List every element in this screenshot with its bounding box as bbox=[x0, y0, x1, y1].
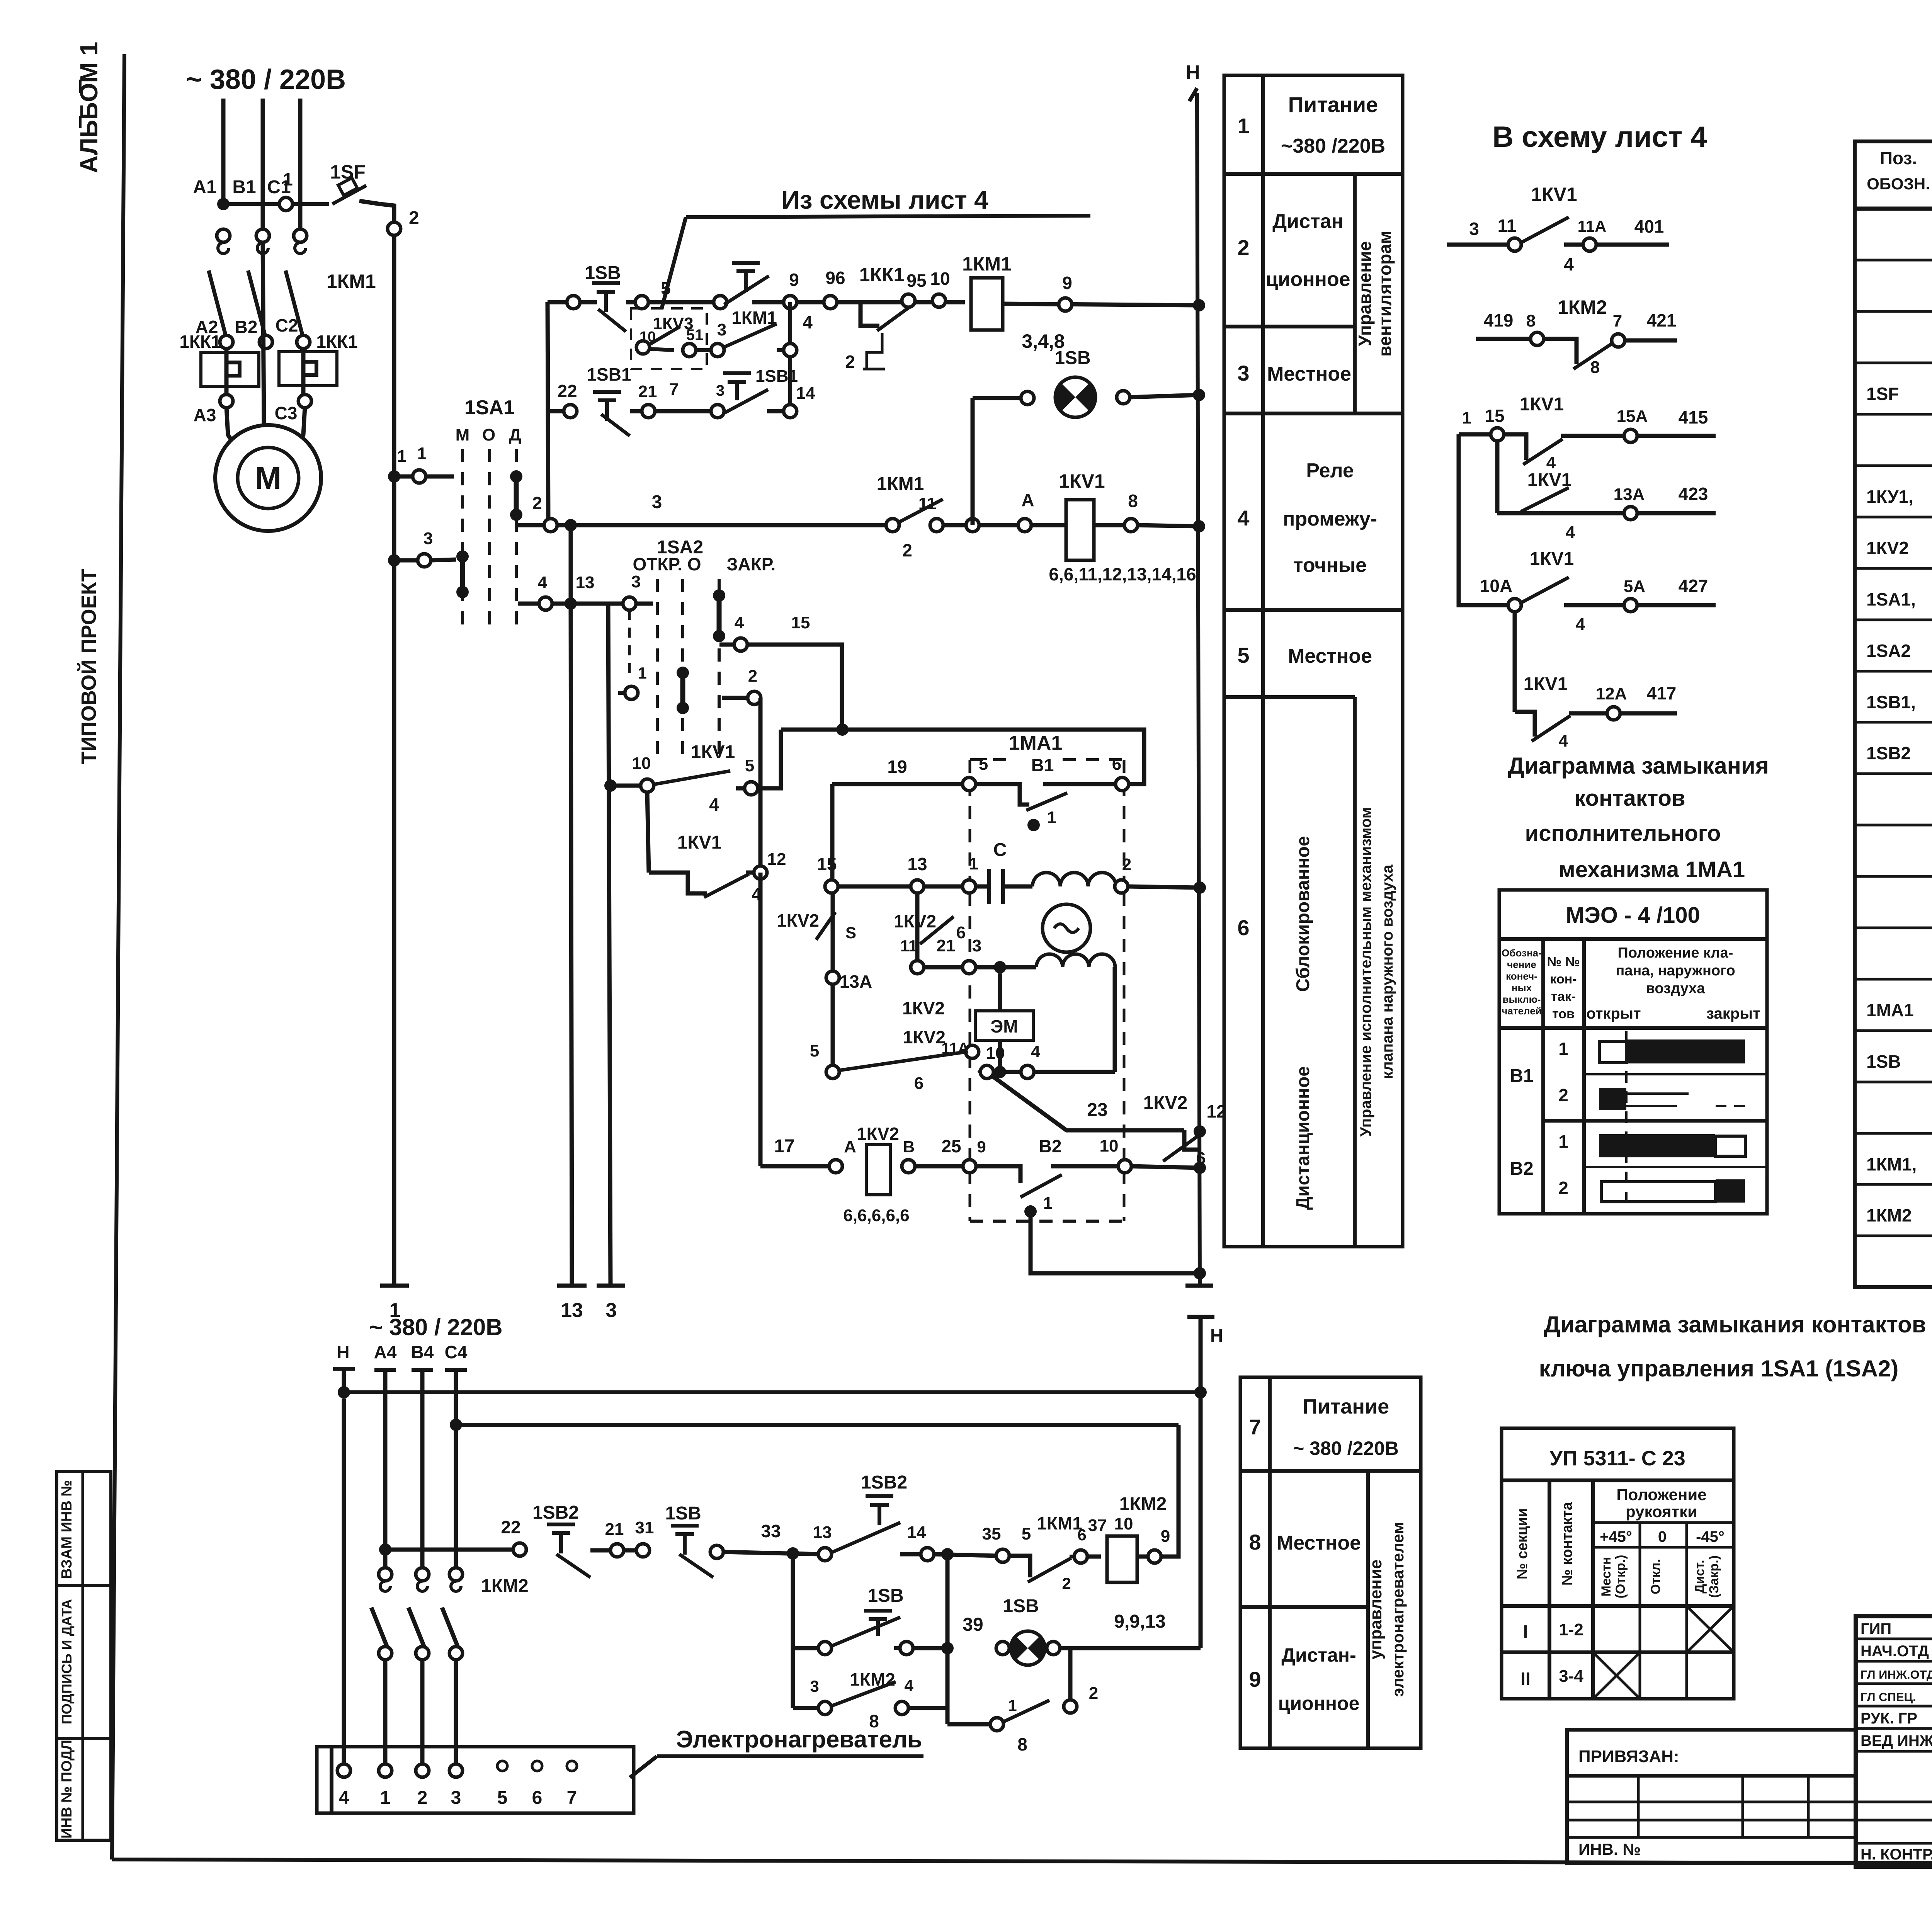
svg-text:С2: С2 bbox=[276, 315, 298, 335]
svg-text:№ №: № № bbox=[1547, 954, 1580, 969]
node bus row 3018 bbox=[1194, 1162, 1206, 1174]
wire lamp return up bbox=[1199, 1392, 1203, 1648]
svg-text:7: 7 bbox=[669, 380, 679, 399]
svg-text:Управление исполнительным ме: Управление исполнительным механизмом bbox=[1357, 807, 1374, 1137]
svg-text:21: 21 bbox=[605, 1520, 624, 1539]
svg-text:10: 10 bbox=[632, 754, 651, 773]
svg-text:9: 9 bbox=[789, 270, 799, 290]
svg-text:Д: Д bbox=[509, 425, 521, 444]
svg-text:11: 11 bbox=[1498, 216, 1517, 236]
svg-text:исполнительного: исполнительного bbox=[1525, 821, 1721, 846]
svg-text:1КV2: 1КV2 bbox=[777, 910, 819, 931]
svg-text:51: 51 bbox=[686, 327, 704, 344]
svg-text:13: 13 bbox=[576, 573, 595, 592]
svg-text:10: 10 bbox=[986, 1044, 1005, 1063]
svg-text:тов: тов bbox=[1552, 1007, 1575, 1021]
MEO bar row1 bbox=[1599, 1041, 1626, 1063]
svg-text:1SВ: 1SВ bbox=[665, 1503, 701, 1524]
svg-text:1КМ1: 1КМ1 bbox=[877, 474, 924, 494]
contact 1KM2 bottom bbox=[946, 1708, 950, 1724]
svg-text:15: 15 bbox=[1485, 406, 1504, 426]
generator symbol in 1MA1 bbox=[1043, 904, 1090, 952]
svg-text:1SВ: 1SВ bbox=[1003, 1596, 1039, 1616]
svg-text:Питание: Питание bbox=[1288, 92, 1378, 117]
svg-text:ных: ных bbox=[1512, 982, 1532, 994]
terminal N mid bbox=[1187, 1315, 1214, 1319]
svg-text:1КV2: 1КV2 bbox=[894, 911, 936, 931]
sidebar stamp box Инв № подл bbox=[57, 1739, 111, 1840]
node A row 3018 bbox=[829, 1160, 842, 1173]
svg-text:4: 4 bbox=[1031, 1042, 1041, 1061]
svg-text:1КМ1: 1КМ1 bbox=[1037, 1513, 1082, 1533]
svg-text:ГЛ ИНЖ.ОТД: ГЛ ИНЖ.ОТД bbox=[1861, 1668, 1932, 1681]
svg-text:МЭО - 4 /100: МЭО - 4 /100 bbox=[1566, 903, 1700, 928]
svg-text:95: 95 bbox=[906, 270, 926, 291]
node B2 bbox=[259, 335, 272, 349]
svg-text:3: 3 bbox=[717, 320, 726, 339]
svg-text:А4: А4 bbox=[374, 1342, 397, 1362]
svg-text:АЛЬБОМ 1: АЛЬБОМ 1 bbox=[75, 42, 103, 173]
svg-text:4: 4 bbox=[904, 1676, 913, 1694]
svg-text:5А: 5А bbox=[1624, 577, 1645, 596]
svg-text:8: 8 bbox=[1017, 1734, 1027, 1754]
svg-text:1SВ1: 1SВ1 bbox=[755, 367, 798, 386]
svg-text:закрыт: закрыт bbox=[1706, 1005, 1760, 1022]
svg-text:2: 2 bbox=[409, 208, 419, 228]
node bus row2 bbox=[1193, 299, 1205, 311]
svg-text:6: 6 bbox=[1112, 755, 1121, 774]
1SA1 contact M closed bbox=[456, 550, 469, 563]
svg-text:1SВ2: 1SВ2 bbox=[1866, 743, 1911, 763]
node 11 row4 bbox=[930, 519, 943, 532]
svg-text:пана, наружного: пана, наружного bbox=[1616, 963, 1735, 979]
svg-text:№ секции: № секции bbox=[1514, 1508, 1531, 1579]
svg-text:Диаграмма замыкания контакт: Диаграмма замыкания контактов bbox=[1544, 1312, 1926, 1337]
bus N horizontal bbox=[344, 1390, 1201, 1394]
svg-text:1КМ2: 1КМ2 bbox=[481, 1576, 529, 1596]
svg-text:9: 9 bbox=[1062, 273, 1072, 293]
svg-text:6: 6 bbox=[1237, 915, 1249, 940]
wire phase B1 bbox=[261, 99, 265, 236]
svg-text:Управление: Управление bbox=[1355, 241, 1375, 346]
title block main frame bbox=[1856, 1616, 1932, 1866]
svg-text:Откл.: Откл. bbox=[1648, 1559, 1663, 1594]
node 9 row 3018 bbox=[963, 1160, 976, 1173]
wire 21 to 3 bbox=[655, 409, 711, 413]
svg-text:3: 3 bbox=[423, 529, 433, 548]
svg-text:S: S bbox=[845, 924, 856, 942]
riser 9-4 between rows bbox=[788, 302, 792, 411]
svg-text:11А: 11А bbox=[941, 1040, 969, 1057]
svg-text:15А: 15А bbox=[1617, 407, 1648, 426]
svg-text:В4: В4 bbox=[411, 1342, 434, 1362]
rail from row2 down to row4 bbox=[548, 302, 548, 520]
svg-text:1: 1 bbox=[1462, 408, 1471, 427]
wire row 13-3 bbox=[518, 602, 539, 606]
bus wire to 1SF bbox=[223, 202, 329, 206]
svg-text:4: 4 bbox=[1559, 732, 1568, 750]
svg-text:10: 10 bbox=[930, 269, 950, 289]
svg-text:В2: В2 bbox=[1039, 1136, 1062, 1156]
wire C2-C3 bbox=[301, 348, 306, 395]
svg-text:427: 427 bbox=[1679, 576, 1708, 596]
svg-text:ОБОЗН.: ОБОЗН. bbox=[1867, 175, 1930, 193]
node bus 3295 bbox=[1194, 1267, 1206, 1279]
svg-text:№ контакта: № контакта bbox=[1559, 1502, 1575, 1586]
svg-text:УП 5311- С 23: УП 5311- С 23 bbox=[1549, 1447, 1685, 1470]
svg-text:Дистанционное: Дистанционное bbox=[1293, 1066, 1313, 1210]
svg-text:22: 22 bbox=[501, 1517, 520, 1537]
svg-text:А3: А3 bbox=[194, 405, 216, 425]
control line from A4 bbox=[379, 1543, 391, 1556]
svg-text:1КМ2: 1КМ2 bbox=[1866, 1205, 1912, 1225]
svg-text:8: 8 bbox=[1128, 491, 1138, 511]
svg-text:13: 13 bbox=[813, 1523, 832, 1542]
wire N down to terminal 4 bbox=[342, 1398, 346, 1764]
riser 15 to second contact bbox=[1495, 441, 1500, 513]
node A3 bbox=[220, 395, 233, 408]
svg-text:С4: С4 bbox=[445, 1342, 468, 1362]
svg-text:+45°: +45° bbox=[1600, 1528, 1632, 1545]
svg-text:Поз.: Поз. bbox=[1880, 148, 1917, 168]
svg-text:3: 3 bbox=[716, 382, 724, 399]
svg-text:21: 21 bbox=[937, 936, 956, 955]
svg-text:423: 423 bbox=[1679, 484, 1708, 504]
svg-text:7: 7 bbox=[567, 1788, 577, 1808]
svg-text:ЗАКР.: ЗАКР. bbox=[727, 554, 776, 574]
svg-text:0: 0 bbox=[1658, 1528, 1667, 1545]
electromagnet EM bbox=[975, 1011, 1033, 1040]
terminal 3 bbox=[597, 1284, 625, 1288]
wire 9 up to bus2 bbox=[1161, 1425, 1179, 1557]
wire net 2 from 1SA2 bbox=[722, 696, 747, 700]
svg-text:А: А bbox=[1021, 490, 1034, 510]
wire B2 return to bus bbox=[1031, 1217, 1200, 1273]
svg-text:II: II bbox=[1520, 1669, 1531, 1689]
svg-text:3: 3 bbox=[972, 936, 981, 955]
svg-text:1КМ1: 1КМ1 bbox=[731, 308, 777, 328]
svg-text:ПРИВЯЗАН:: ПРИВЯЗАН: bbox=[1578, 1747, 1679, 1766]
MEO dashed zero line bbox=[1625, 1031, 1628, 1210]
contact circles on phases bbox=[217, 229, 230, 242]
svg-text:так-: так- bbox=[1551, 989, 1576, 1004]
svg-text:Реле: Реле bbox=[1306, 459, 1354, 482]
svg-text:31: 31 bbox=[635, 1518, 654, 1537]
svg-text:9: 9 bbox=[1161, 1527, 1170, 1546]
svg-text:14: 14 bbox=[907, 1523, 926, 1542]
MEO bar row3 bbox=[1599, 1134, 1715, 1157]
svg-text:1КV2: 1КV2 bbox=[903, 1027, 946, 1047]
svg-text:1SВ2: 1SВ2 bbox=[861, 1472, 907, 1493]
svg-text:4: 4 bbox=[1576, 615, 1585, 634]
svg-text:1SF: 1SF bbox=[1866, 384, 1899, 404]
1SA1 contact D closed bbox=[510, 470, 522, 483]
wire C3 to motor bbox=[297, 407, 305, 446]
svg-text:управление: управление bbox=[1366, 1560, 1385, 1660]
contact 1KV1 row 2033 bbox=[604, 779, 617, 792]
svg-text:2: 2 bbox=[532, 493, 542, 513]
node bus row4 bbox=[1193, 520, 1205, 532]
svg-text:С3: С3 bbox=[275, 403, 298, 423]
svg-text:22: 22 bbox=[557, 381, 577, 401]
wire net 23 diagonal bbox=[993, 1077, 1184, 1130]
svg-text:~ 380 /220В: ~ 380 /220В bbox=[1293, 1438, 1399, 1459]
svg-text:1SB: 1SB bbox=[585, 263, 621, 283]
svg-text:15: 15 bbox=[817, 854, 837, 874]
svg-text:выклю-: выклю- bbox=[1503, 994, 1541, 1005]
svg-text:1: 1 bbox=[1237, 114, 1249, 138]
node 5 row2 bbox=[635, 296, 648, 309]
rail 13 vertical bbox=[569, 525, 573, 604]
svg-text:6,6,6,6,6: 6,6,6,6,6 bbox=[843, 1206, 909, 1225]
contact 1KV2 row 2774 bbox=[826, 1065, 839, 1079]
node 21 bbox=[642, 405, 655, 418]
svg-text:3: 3 bbox=[631, 572, 641, 591]
svg-text:4: 4 bbox=[803, 312, 813, 332]
svg-text:1КV2: 1КV2 bbox=[1143, 1093, 1188, 1113]
svg-text:1МА1: 1МА1 bbox=[1009, 732, 1063, 754]
svg-text:1КК1: 1КК1 bbox=[179, 332, 221, 352]
svg-text:Дист.: Дист. bbox=[1692, 1560, 1707, 1593]
svg-text:1КК1: 1КК1 bbox=[859, 264, 905, 286]
wire 13 down to 11 bbox=[915, 893, 920, 961]
svg-text:1МА1: 1МА1 bbox=[1866, 1000, 1914, 1020]
wire EM vertical bbox=[998, 973, 1002, 1011]
node 14 bbox=[784, 405, 797, 418]
svg-text:В2: В2 bbox=[1510, 1159, 1533, 1179]
wire net 15-19 corner bbox=[830, 784, 835, 880]
row 3018 wire 17 bbox=[759, 873, 763, 1166]
svg-text:Н: Н bbox=[1185, 61, 1200, 84]
svg-text:14: 14 bbox=[796, 384, 815, 403]
limit switch B1 row bbox=[832, 782, 963, 786]
svg-text:25: 25 bbox=[941, 1136, 961, 1156]
svg-text:1: 1 bbox=[1008, 1696, 1017, 1715]
node 10 row2 bbox=[932, 294, 946, 307]
wire to node 14 bbox=[767, 409, 784, 413]
svg-text:1SА2: 1SА2 bbox=[1866, 641, 1911, 661]
relay contact 1KV3 in dashed box bbox=[631, 308, 707, 369]
svg-text:рукоятки: рукоятки bbox=[1626, 1502, 1697, 1521]
svg-text:1: 1 bbox=[1558, 1131, 1568, 1152]
svg-text:ИНВ № ПОДЛ: ИНВ № ПОДЛ bbox=[59, 1740, 75, 1839]
svg-text:5: 5 bbox=[979, 755, 988, 774]
svg-text:О: О bbox=[482, 425, 495, 444]
svg-text:промежу-: промежу- bbox=[1283, 508, 1377, 530]
node 12 bbox=[754, 866, 767, 879]
wire A2-A3 bbox=[224, 348, 229, 395]
svg-text:воздуха: воздуха bbox=[1646, 980, 1706, 997]
node 35 bbox=[996, 1549, 1009, 1562]
sidebar stamp box Подпись и дата bbox=[57, 1586, 111, 1739]
node 3 row3 bbox=[711, 405, 724, 418]
svg-text:8: 8 bbox=[1590, 358, 1600, 377]
svg-text:механизма 1МА1: механизма 1МА1 bbox=[1559, 857, 1745, 882]
svg-text:Местное: Местное bbox=[1267, 363, 1351, 385]
svg-text:(Закр.): (Закр.) bbox=[1707, 1555, 1721, 1598]
svg-text:1SВ1,: 1SВ1, bbox=[1866, 692, 1916, 712]
svg-text:В1: В1 bbox=[1031, 755, 1054, 775]
svg-text:1КV2: 1КV2 bbox=[857, 1124, 899, 1144]
function table rows 1-6 bbox=[1224, 75, 1403, 1247]
wire row 2293 net 15 bbox=[825, 880, 838, 893]
node 13 heater bbox=[793, 1553, 819, 1554]
wire coil to bus row2 bbox=[1003, 304, 1199, 305]
svg-text:РУК. ГР: РУК. ГР bbox=[1861, 1710, 1917, 1727]
svg-text:чение: чение bbox=[1507, 959, 1536, 970]
svg-text:2: 2 bbox=[902, 540, 912, 560]
svg-text:3: 3 bbox=[1237, 361, 1249, 385]
svg-text:Дистан: Дистан bbox=[1272, 210, 1344, 233]
sidebar stamp box Взам инв № bbox=[57, 1472, 111, 1586]
node 51 bbox=[683, 344, 696, 357]
svg-text:15: 15 bbox=[791, 613, 810, 632]
riser 10A down bbox=[1513, 611, 1517, 712]
svg-text:2: 2 bbox=[1558, 1178, 1568, 1198]
svg-text:М: М bbox=[456, 425, 470, 444]
wire phase C1 bbox=[298, 99, 303, 236]
svg-text:1КV1: 1КV1 bbox=[1527, 470, 1572, 490]
svg-text:6: 6 bbox=[532, 1788, 543, 1808]
svg-text:ПОДПИСЬ И ДАТА: ПОДПИСЬ И ДАТА bbox=[59, 1599, 75, 1724]
svg-text:5: 5 bbox=[497, 1788, 508, 1808]
svg-text:контактов: контактов bbox=[1574, 786, 1685, 811]
svg-text:13: 13 bbox=[907, 854, 927, 874]
svg-text:2: 2 bbox=[845, 352, 855, 372]
svg-text:Электронагреватель: Электронагреватель bbox=[676, 1726, 922, 1753]
bus N vertical bbox=[1197, 93, 1200, 1286]
svg-text:1КV1: 1КV1 bbox=[1520, 394, 1564, 415]
svg-text:Дистан-: Дистан- bbox=[1281, 1644, 1356, 1666]
svg-text:1SB1: 1SB1 bbox=[587, 364, 631, 384]
svg-text:13: 13 bbox=[561, 1299, 583, 1322]
wire net 15 from 1SA2 bbox=[719, 643, 734, 647]
svg-text:4: 4 bbox=[1564, 254, 1574, 274]
wire node5 to 1SB second bbox=[648, 300, 720, 305]
table MEO-4/100 bbox=[1499, 890, 1767, 1214]
wire net from dot 1888 bbox=[781, 730, 1144, 784]
svg-text:ключа управления 1SА1 (1SА2): ключа управления 1SА1 (1SА2) bbox=[1539, 1356, 1899, 1381]
node B row 3018 bbox=[902, 1160, 915, 1173]
svg-text:Местное: Местное bbox=[1277, 1532, 1361, 1554]
node 22 heater bbox=[513, 1543, 526, 1556]
svg-text:А1: А1 bbox=[193, 177, 216, 197]
svg-text:1: 1 bbox=[969, 854, 978, 873]
terminal 13 bbox=[557, 1284, 587, 1288]
svg-text:3: 3 bbox=[451, 1788, 461, 1808]
wire net 1 row bbox=[388, 470, 400, 483]
svg-text:11: 11 bbox=[900, 937, 917, 955]
svg-text:6: 6 bbox=[914, 1074, 923, 1093]
wire B to motor bbox=[263, 242, 264, 426]
1SA2 contact 3-1 column bbox=[628, 610, 631, 680]
rail 3 vertical bbox=[608, 604, 611, 1286]
svg-text:5: 5 bbox=[810, 1041, 819, 1060]
node 2 row4 bbox=[544, 519, 557, 532]
riser to lamp row bbox=[971, 398, 975, 525]
svg-text:1КМ2: 1КМ2 bbox=[1558, 296, 1607, 318]
frame left border bbox=[112, 54, 124, 1859]
svg-text:4: 4 bbox=[339, 1788, 349, 1808]
svg-text:чателей: чателей bbox=[1502, 1005, 1541, 1017]
branch from 33 down bbox=[791, 1553, 795, 1648]
wire coil to node 8 bbox=[1094, 523, 1125, 527]
svg-text:ЭМ: ЭМ bbox=[990, 1016, 1018, 1036]
svg-text:ГИП: ГИП bbox=[1861, 1620, 1891, 1637]
svg-text:Положение кла-: Положение кла- bbox=[1618, 945, 1733, 961]
1KK1 release symbol bbox=[863, 333, 882, 369]
svg-text:1КV1: 1КV1 bbox=[1524, 674, 1568, 694]
svg-text:9: 9 bbox=[1249, 1667, 1261, 1691]
svg-text:1КV1: 1КV1 bbox=[1531, 184, 1577, 205]
X mark row I bbox=[1687, 1606, 1734, 1652]
svg-text:1: 1 bbox=[638, 664, 646, 682]
contact 1KV2 on rail 2155 bbox=[831, 893, 835, 971]
bus 2 horizontal bbox=[456, 1423, 1179, 1427]
node 11 row 2503 bbox=[911, 961, 924, 974]
svg-text:открыт: открыт bbox=[1586, 1005, 1641, 1022]
svg-text:415: 415 bbox=[1679, 407, 1708, 427]
svg-text:9,9,13: 9,9,13 bbox=[1114, 1611, 1165, 1632]
svg-text:1КМ1,: 1КМ1, bbox=[1866, 1154, 1917, 1174]
svg-text:4: 4 bbox=[735, 613, 744, 632]
svg-text:НАЧ.ОТД: НАЧ.ОТД bbox=[1861, 1643, 1929, 1660]
svg-text:13А: 13А bbox=[1614, 485, 1645, 504]
wire net 3 row4 bbox=[557, 523, 886, 527]
svg-text:4: 4 bbox=[709, 794, 719, 815]
node bus A1 bbox=[217, 198, 230, 210]
svg-text:8: 8 bbox=[1249, 1530, 1261, 1554]
parts table grid bbox=[1855, 141, 1932, 1287]
svg-text:17: 17 bbox=[774, 1136, 794, 1157]
vertical 14-branch bbox=[946, 1554, 950, 1708]
svg-text:9: 9 bbox=[977, 1138, 986, 1156]
node 9 heater bbox=[1137, 1555, 1148, 1559]
svg-text:Н: Н bbox=[337, 1342, 349, 1362]
node 13A bbox=[826, 971, 839, 984]
svg-text:2: 2 bbox=[1122, 855, 1131, 874]
MEO bar row4 bbox=[1601, 1182, 1716, 1202]
1SA2 contact middle closed bbox=[677, 667, 689, 679]
svg-text:5: 5 bbox=[661, 278, 671, 298]
svg-text:М: М bbox=[255, 461, 281, 496]
wire row3 start bbox=[548, 409, 563, 413]
node A2 bbox=[220, 335, 233, 349]
heater terminals bbox=[337, 1764, 350, 1777]
svg-text:8: 8 bbox=[1526, 311, 1536, 330]
frame bottom border bbox=[112, 1859, 1932, 1865]
svg-text:Положение: Положение bbox=[1616, 1485, 1706, 1504]
contactor 1KM1 main contacts bbox=[218, 243, 229, 253]
svg-text:3: 3 bbox=[810, 1677, 819, 1695]
svg-text:Местн: Местн bbox=[1599, 1557, 1614, 1597]
svg-text:Н: Н bbox=[1210, 1325, 1223, 1346]
svg-text:2: 2 bbox=[1558, 1085, 1568, 1105]
node 96 bbox=[824, 296, 837, 309]
svg-text:А: А bbox=[844, 1137, 856, 1156]
svg-text:4: 4 bbox=[1237, 506, 1249, 530]
svg-text:1КМ2: 1КМ2 bbox=[850, 1669, 895, 1689]
svg-text:3: 3 bbox=[606, 1299, 617, 1322]
svg-text:вентиляторам: вентиляторам bbox=[1375, 231, 1395, 357]
svg-text:13А: 13А bbox=[840, 971, 872, 992]
svg-text:В1: В1 bbox=[1510, 1066, 1533, 1086]
svg-text:конеч-: конеч- bbox=[1506, 970, 1537, 982]
svg-text:1-2: 1-2 bbox=[1559, 1620, 1583, 1639]
wire 1KV3 to 51 bbox=[649, 349, 674, 350]
svg-text:35: 35 bbox=[982, 1524, 1001, 1543]
svg-text:Диаграмма замыкания: Диаграмма замыкания bbox=[1508, 753, 1769, 779]
